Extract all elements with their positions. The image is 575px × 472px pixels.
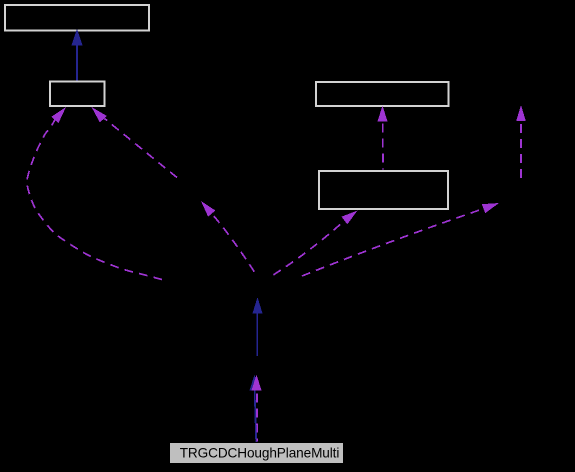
wire inheritance P2 to P1 (solid blue) xyxy=(256,312,258,356)
wire usage N1 to B bottom-right (dashed purple) xyxy=(105,119,178,178)
wire usage D to C (dashed purple) xyxy=(382,122,384,170)
wire inheritance M to P2 (solid blue, under purple) xyxy=(255,390,257,442)
node box C (right middle) xyxy=(316,82,449,106)
wire usage P1 to N1 (dashed purple) xyxy=(211,213,257,276)
svg-text:TRGCDCHoughPlaneMulti: TRGCDCHoughPlaneMulti xyxy=(180,445,340,460)
node TRGCDCHoughPlaneBase helper (box B, small) xyxy=(50,82,105,107)
node TRGCDCHoughPlaneMulti (grey filled box M) xyxy=(170,443,344,464)
wire usage M to P2 (dashed purple, over blue) xyxy=(256,391,258,442)
wire inheritance B to A (solid blue) xyxy=(76,44,78,81)
wire usage E to F (dashed purple, vertical right) xyxy=(520,122,522,179)
node box D (below C) xyxy=(319,171,448,209)
wire usage P1 to E (dashed purple) xyxy=(302,209,484,277)
wire usage arc P1 to B bottom-left (dashed purple) xyxy=(27,120,162,280)
wire usage P1 to D (dashed purple) xyxy=(270,220,345,277)
node TRGCDCHoughTransformation (box A, top-left) xyxy=(5,5,149,31)
